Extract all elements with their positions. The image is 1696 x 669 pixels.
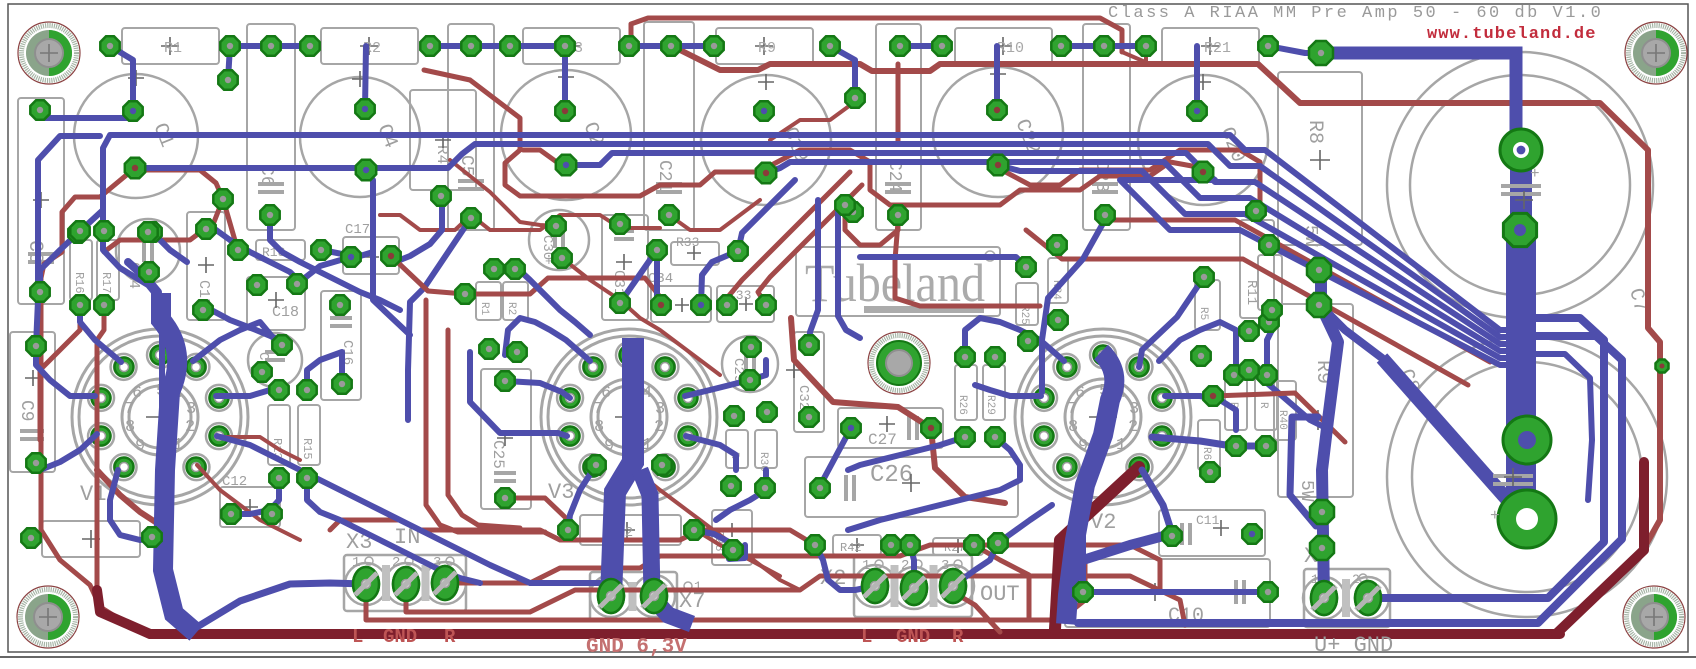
svg-text:V1: V1 xyxy=(80,482,106,507)
svg-text:2: 2 xyxy=(654,418,664,437)
svg-text:GND: GND xyxy=(896,626,930,648)
svg-text:R11: R11 xyxy=(1243,280,1259,305)
svg-text:R4: R4 xyxy=(433,145,451,164)
svg-text:R21: R21 xyxy=(1204,40,1231,57)
svg-text:R10: R10 xyxy=(997,40,1024,57)
svg-text:C9: C9 xyxy=(16,400,36,422)
svg-text:R: R xyxy=(952,626,964,648)
svg-text:9: 9 xyxy=(604,437,614,456)
svg-text:R1: R1 xyxy=(164,40,182,57)
svg-text:3: 3 xyxy=(186,400,196,419)
svg-text:R1: R1 xyxy=(478,302,490,316)
svg-text:OUT: OUT xyxy=(980,582,1020,607)
svg-text:3: 3 xyxy=(1129,400,1139,419)
svg-text:R2: R2 xyxy=(505,302,517,315)
svg-text:GND: GND xyxy=(383,626,417,648)
svg-text:7: 7 xyxy=(1067,400,1077,419)
svg-text:R: R xyxy=(444,626,456,648)
svg-text:2: 2 xyxy=(185,418,195,437)
svg-text:1: 1 xyxy=(1116,436,1126,455)
svg-text:C26: C26 xyxy=(870,462,913,489)
svg-text:R9: R9 xyxy=(758,40,776,57)
svg-text:7: 7 xyxy=(593,400,603,419)
svg-text:R26: R26 xyxy=(956,395,968,415)
svg-text:GND 6,3V: GND 6,3V xyxy=(586,636,687,659)
svg-text:8: 8 xyxy=(125,418,135,437)
svg-text:C27: C27 xyxy=(868,431,897,449)
svg-text:R8: R8 xyxy=(1303,120,1326,144)
svg-text:R33: R33 xyxy=(676,235,699,250)
svg-text:Class A RIAA MM Pre Amp 50 - 6: Class A RIAA MM Pre Amp 50 - 60 db V1.0 xyxy=(1108,4,1603,23)
svg-text:R42: R42 xyxy=(840,541,862,555)
svg-text:2: 2 xyxy=(1128,418,1138,437)
svg-text:8: 8 xyxy=(1068,418,1078,437)
svg-text:+: + xyxy=(1490,507,1500,525)
svg-text:C11: C11 xyxy=(1196,513,1220,528)
svg-text:R6: R6 xyxy=(1200,447,1212,460)
svg-text:R29: R29 xyxy=(984,395,996,415)
svg-text:5W: 5W xyxy=(1296,480,1316,502)
svg-text:+: + xyxy=(1530,165,1540,183)
svg-text:8: 8 xyxy=(594,418,604,437)
svg-text:R15: R15 xyxy=(300,438,314,460)
svg-text:7: 7 xyxy=(124,400,134,419)
svg-text:R: R xyxy=(1257,402,1269,409)
svg-text:U+ GND: U+ GND xyxy=(1314,633,1393,658)
svg-text:C17: C17 xyxy=(345,222,370,238)
svg-text:3: 3 xyxy=(655,400,665,419)
svg-text:L: L xyxy=(861,626,872,648)
svg-text:R5: R5 xyxy=(1197,307,1209,320)
svg-text:L: L xyxy=(352,626,363,648)
svg-text:R16: R16 xyxy=(72,272,86,294)
svg-text:R17: R17 xyxy=(99,272,113,294)
svg-text:9: 9 xyxy=(135,437,145,456)
svg-text:www.tubeland.de: www.tubeland.de xyxy=(1427,25,1597,44)
